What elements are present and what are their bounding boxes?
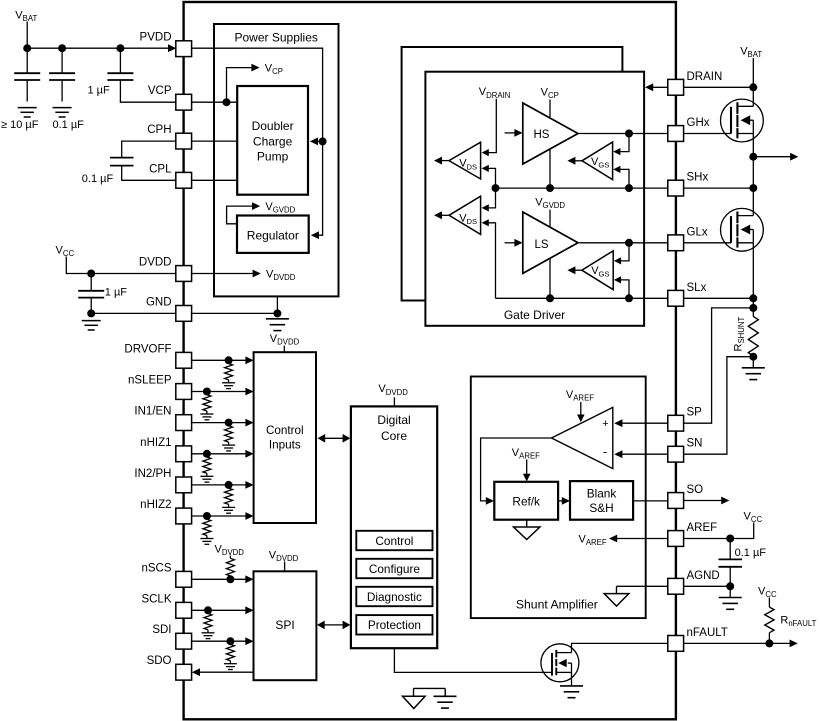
wire VCP stub into HS bbox=[549, 100, 551, 117]
svg-text:Gate Driver: Gate Driver bbox=[504, 308, 565, 322]
wire IN1/EN to Control Inputs bbox=[192, 422, 247, 424]
svg-text:GHx: GHx bbox=[687, 117, 710, 129]
junction IN2/PH pulldown bbox=[225, 481, 233, 489]
svg-text:AGND: AGND bbox=[687, 570, 720, 582]
pin AREF bbox=[668, 531, 684, 547]
wire DRAIN arrow into gate driver bbox=[651, 86, 668, 88]
wire VDS LS output arrow bbox=[442, 214, 450, 216]
op-amp VDS comparator LS bbox=[449, 196, 481, 234]
svg-text:0.1 µF: 0.1 µF bbox=[53, 119, 85, 131]
svg-text:HS: HS bbox=[534, 129, 550, 141]
wire HS bottom to SHx bbox=[549, 149, 551, 188]
junction at C3 bbox=[116, 44, 124, 52]
transistor low-side MOSFET bbox=[721, 208, 764, 251]
wire SPI to Digital Core (bidirectional) bbox=[323, 624, 344, 626]
wire GND to C5 bbox=[91, 312, 176, 314]
analog ground triangle below Ref/k bbox=[514, 527, 540, 540]
svg-text:+: + bbox=[602, 418, 608, 430]
wire RSHUNT to ground bbox=[752, 357, 754, 368]
svg-text:IN1/EN: IN1/EN bbox=[134, 406, 171, 418]
junction at C5 top bbox=[87, 270, 95, 278]
wire VCP to VCP label bbox=[227, 68, 252, 103]
svg-text:Control: Control bbox=[375, 534, 413, 548]
svg-text:nSCS: nSCS bbox=[141, 562, 171, 574]
pin GLx bbox=[668, 235, 684, 251]
wire VDS LS lower input from SLx bbox=[488, 223, 496, 298]
svg-text:Inputs: Inputs bbox=[269, 439, 301, 452]
wire SN to op-amp minus bbox=[621, 453, 668, 455]
svg-text:nFAULT: nFAULT bbox=[687, 627, 728, 639]
pin VCP bbox=[176, 94, 192, 110]
wire LS bottom to SLx bbox=[549, 259, 551, 299]
junction phase node bbox=[749, 153, 757, 161]
wire VAREF into op-amp bbox=[580, 402, 582, 415]
pin SLx bbox=[668, 290, 684, 306]
block Blank S&H bbox=[570, 481, 633, 520]
svg-text:CPL: CPL bbox=[149, 163, 172, 175]
svg-text:Ref/k: Ref/k bbox=[512, 495, 540, 509]
pin AGND bbox=[668, 578, 684, 594]
junction HS-SHx bbox=[546, 184, 554, 192]
wire high side source to phase node bbox=[752, 134, 754, 157]
transistor high-side MOSFET bbox=[721, 99, 764, 142]
junction DRVOFF pulldown bbox=[225, 356, 233, 364]
svg-text:CPH: CPH bbox=[147, 124, 171, 136]
resistor pulldown nHIZ1 bbox=[203, 457, 211, 473]
svg-text:S&H: S&H bbox=[589, 501, 613, 515]
op-amp VDS comparator HS bbox=[449, 142, 481, 179]
svg-text:SDI: SDI bbox=[152, 624, 171, 636]
wire IN2/PH to Control Inputs bbox=[192, 484, 247, 486]
block Regulator bbox=[237, 216, 309, 253]
wire DRVOFF to Control Inputs bbox=[192, 359, 247, 361]
junction AGND bbox=[726, 582, 734, 590]
svg-text:AREF: AREF bbox=[687, 522, 718, 534]
capacitor C2 plates bbox=[49, 72, 75, 74]
wire VDRAIN to VDS comparator bbox=[488, 99, 496, 153]
block SPI bbox=[254, 571, 317, 680]
junction nSLEEP pulldown bbox=[203, 388, 211, 396]
block Control Inputs bbox=[254, 352, 316, 523]
wire ground tie left stub bbox=[413, 688, 415, 696]
svg-text:Digital: Digital bbox=[377, 413, 410, 427]
wire AGND to ground triangle bbox=[617, 585, 668, 587]
wire regulator output to VGVDD label bbox=[227, 206, 252, 224]
digital ground symbol bbox=[434, 695, 457, 697]
junction nHIZ2 pulldown bbox=[203, 512, 211, 520]
svg-text:DVDD: DVDD bbox=[139, 257, 172, 269]
wire VDVDD stub Digital Core bbox=[393, 397, 395, 406]
svg-text:SP: SP bbox=[687, 407, 703, 419]
ground below C2 bbox=[53, 107, 72, 109]
block Ref/k bbox=[494, 482, 558, 520]
wire power supplies block to ground bbox=[276, 296, 278, 313]
resistor pulldown DRVOFF bbox=[225, 364, 233, 380]
junction VDS taps SHx bbox=[492, 184, 500, 192]
pin SN bbox=[668, 446, 684, 462]
wire VGS HS lower input from SHx bbox=[620, 169, 630, 188]
capacitor C2 bottom lead bbox=[61, 80, 63, 102]
block Digital Core bbox=[351, 406, 437, 648]
block Power Supplies bbox=[214, 24, 339, 296]
junction VGS taps SHx bbox=[625, 184, 633, 192]
block Protection bbox=[356, 615, 432, 634]
svg-text:Doubler: Doubler bbox=[252, 119, 294, 133]
wire nHIZ2 to Control Inputs bbox=[192, 515, 247, 517]
junction nSCS pullup bbox=[226, 575, 234, 583]
wire Digital Core to fault transistor gate bbox=[394, 648, 552, 672]
wire phase to low side drain bbox=[752, 157, 754, 216]
svg-text:-: - bbox=[603, 445, 607, 459]
svg-text:nHIZ1: nHIZ1 bbox=[140, 437, 171, 449]
resistor RnFAULT bbox=[765, 607, 774, 633]
junction SLx bbox=[749, 294, 757, 302]
wire VDVDD stub Control Inputs bbox=[283, 346, 285, 353]
ground SDI pulldown bbox=[224, 663, 237, 665]
capacitor C3 bottom lead to VCP bbox=[120, 80, 175, 102]
svg-text:PVDD: PVDD bbox=[140, 32, 172, 44]
pin DRVOFF bbox=[176, 352, 192, 368]
ground AGND bbox=[719, 597, 742, 599]
resistor pulldown SDI bbox=[226, 644, 234, 660]
svg-text:nSLEEP: nSLEEP bbox=[128, 375, 172, 387]
pin GHx bbox=[668, 126, 684, 142]
pin IN1/EN bbox=[176, 415, 192, 431]
svg-text:DRAIN: DRAIN bbox=[687, 71, 723, 83]
wire VDVDD stub SPI bbox=[284, 562, 286, 572]
wire SLx line bbox=[496, 297, 668, 299]
pin DRAIN bbox=[668, 79, 684, 95]
svg-text:≥ 10 µF: ≥ 10 µF bbox=[1, 119, 39, 131]
wire GND internal bbox=[192, 312, 278, 314]
junction IN1/EN pulldown bbox=[225, 419, 233, 427]
svg-text:DRVOFF: DRVOFF bbox=[124, 343, 171, 355]
wire VCC to AREF bbox=[684, 523, 754, 539]
wire SHx line bbox=[496, 187, 668, 189]
op-amp shunt amplifier U1 bbox=[552, 407, 613, 468]
resistor RSHUNT bbox=[748, 316, 758, 356]
pin nSCS bbox=[176, 571, 192, 587]
wire nFAULT output arrow bbox=[684, 642, 790, 644]
wire SP to op-amp plus bbox=[621, 422, 668, 424]
junction nHIZ1 pulldown bbox=[203, 450, 211, 458]
svg-text:Configure: Configure bbox=[369, 562, 421, 576]
capacitor C1 plates bbox=[14, 72, 40, 74]
wire SO output arrow bbox=[684, 500, 722, 502]
wire VCC to RnFAULT bbox=[768, 598, 770, 608]
junction DRAIN-VBAT bbox=[749, 83, 757, 91]
wire VGS LS upper input from GLx bbox=[620, 243, 629, 261]
svg-text:SLx: SLx bbox=[687, 282, 707, 294]
resistor pulldown nSLEEP bbox=[203, 395, 211, 411]
capacitor C6 0.1uF lead bbox=[729, 539, 731, 560]
resistor pulldown IN1/EN bbox=[225, 426, 233, 442]
svg-text:GLx: GLx bbox=[687, 226, 708, 238]
IC chip outline bbox=[184, 2, 676, 719]
junction VGS taps GLx bbox=[625, 239, 633, 247]
wire nSCS to SPI bbox=[192, 578, 246, 580]
capacitor C3 1uF lead bbox=[119, 48, 121, 73]
svg-text:Charge: Charge bbox=[253, 134, 293, 148]
wire VGVDD stub into LS bbox=[549, 210, 551, 227]
wire CPH to C4 bbox=[122, 141, 176, 158]
wire high side drain bus bbox=[752, 87, 754, 106]
pin SCLK bbox=[176, 602, 192, 618]
pin SHx bbox=[668, 180, 684, 196]
wire GHx line bbox=[579, 133, 668, 135]
wire ground tie right stub bbox=[444, 688, 446, 696]
wire PVDD internal to regulator bbox=[192, 48, 323, 235]
pin nHIZ1 bbox=[176, 446, 192, 462]
block Gate Driver shadow bbox=[402, 47, 623, 301]
junction at C5 bottom bbox=[87, 309, 95, 317]
svg-text:0.1 µF: 0.1 µF bbox=[82, 173, 114, 185]
wire AREF to VAREF label bbox=[616, 538, 668, 540]
pin SP bbox=[668, 415, 684, 431]
junction nFAULT bbox=[765, 639, 773, 647]
block Doubler Charge Pump bbox=[237, 86, 308, 195]
svg-text:VCP: VCP bbox=[148, 85, 172, 97]
svg-text:LS: LS bbox=[534, 239, 548, 251]
wire VDS LS upper input arrowhead bbox=[482, 204, 489, 211]
junction SHx bbox=[749, 184, 757, 192]
pin nSLEEP bbox=[176, 384, 192, 400]
pin IN2/PH bbox=[176, 477, 192, 493]
wire SPI to SDO bbox=[200, 671, 254, 673]
capacitor C6 plates bbox=[718, 558, 742, 560]
wire VGS LS output arrow bbox=[575, 269, 582, 271]
svg-text:SDO: SDO bbox=[147, 655, 172, 667]
wire op-amp output to Ref/k bbox=[481, 438, 552, 501]
transistor fault open-drain MOSFET bbox=[541, 644, 579, 682]
wire VAREF into Ref/k bbox=[526, 460, 528, 475]
wire VBAT bus to PVDD bbox=[27, 47, 176, 49]
wire SN sense bbox=[684, 357, 754, 455]
wire CPL internal bbox=[192, 179, 238, 181]
wire SLx to source bbox=[684, 297, 754, 299]
block Shunt Amplifier bbox=[471, 377, 646, 619]
resistor pullup nSCS bbox=[229, 556, 231, 559]
svg-text:Diagnostic: Diagnostic bbox=[367, 590, 422, 604]
junction RSHUNT top bbox=[749, 304, 757, 312]
wire VDS HS output arrow bbox=[442, 160, 450, 162]
junction RSHUNT bottom bbox=[749, 353, 757, 361]
wire VDS HS lower input from SHx bbox=[488, 168, 496, 208]
ground GND pin bbox=[266, 318, 289, 320]
wire VCP internal bbox=[192, 101, 238, 103]
wire AGND to cap bbox=[684, 585, 731, 587]
junction VGS taps GHx bbox=[625, 130, 633, 138]
junction VCP bbox=[223, 98, 231, 106]
ground DRVOFF pulldown bbox=[222, 382, 235, 384]
svg-text:1 µF: 1 µF bbox=[105, 286, 128, 298]
wire SHx to phase node bbox=[684, 187, 754, 189]
pin CPH bbox=[176, 133, 192, 149]
junction PVDD internal bbox=[319, 137, 327, 145]
capacitor C4 0.1uF plates bbox=[110, 157, 134, 159]
svg-text:nHIZ2: nHIZ2 bbox=[140, 499, 171, 511]
pin SDI bbox=[176, 633, 192, 649]
wire VGS LS lower input from SLx bbox=[620, 280, 629, 298]
wire SDI to SPI bbox=[192, 640, 246, 642]
wire SCLK to SPI bbox=[192, 609, 246, 611]
svg-text:Control: Control bbox=[266, 424, 304, 437]
wire LS input arrow bbox=[505, 242, 516, 244]
junction SCLK pulldown bbox=[204, 606, 212, 614]
wire Ref/k to Blank S&H bbox=[558, 500, 563, 502]
pin CPL bbox=[176, 172, 192, 188]
junction LS-SLx bbox=[546, 294, 554, 302]
svg-text:Shunt Amplifier: Shunt Amplifier bbox=[516, 597, 598, 611]
svg-text:Core: Core bbox=[381, 429, 407, 443]
capacitor C6 bottom lead bbox=[729, 567, 731, 587]
wire Control Inputs to Digital Core (bidirectional) bbox=[324, 437, 344, 439]
op-amp VGS comparator LS bbox=[582, 251, 613, 290]
pin SDO bbox=[176, 664, 192, 680]
capacitor C5 bottom lead bbox=[90, 298, 92, 314]
wire DRAIN to VBAT junction bbox=[684, 86, 754, 88]
capacitor C5 1uF lead bbox=[90, 274, 92, 291]
wire nSLEEP to Control Inputs bbox=[192, 391, 247, 393]
pin PVDD bbox=[176, 41, 192, 57]
wire VCC to DVDD bbox=[66, 257, 175, 274]
op-amp LS gate driver bbox=[523, 212, 578, 273]
wire to charge pump input bbox=[316, 140, 323, 142]
wire AGND ground stub bbox=[729, 586, 731, 597]
junction at C2 bbox=[58, 44, 66, 52]
wire nFAULT to fault transistor drain bbox=[572, 643, 668, 652]
wire VBAT stub bbox=[26, 22, 28, 49]
ground below C5 bbox=[82, 320, 101, 322]
capacitor C2 0.1uF lead bbox=[61, 48, 63, 73]
svg-text:Blank: Blank bbox=[587, 486, 617, 500]
capacitor C1 bottom lead bbox=[26, 80, 28, 102]
pin GND bbox=[176, 306, 192, 322]
wire SP sense bbox=[684, 308, 754, 423]
svg-text:Protection: Protection bbox=[368, 618, 421, 632]
resistor pulldown nHIZ2 bbox=[203, 519, 211, 535]
wire Ref/k to ground triangle bbox=[526, 520, 528, 527]
ground below C1 bbox=[18, 107, 37, 109]
capacitor C5 plates bbox=[78, 290, 104, 292]
wire C4 to CPL bbox=[122, 166, 176, 181]
wire GLx line bbox=[579, 242, 668, 244]
block Gate Driver bbox=[425, 72, 644, 326]
wire DVDD to VDVDD label bbox=[192, 273, 253, 275]
wire RnFAULT to nFAULT bbox=[768, 633, 770, 644]
ground RSHUNT bbox=[742, 367, 765, 369]
ground nHIZ2 pulldown bbox=[200, 538, 213, 540]
svg-text:GND: GND bbox=[146, 296, 172, 308]
analog ground triangle at AGND bbox=[604, 594, 629, 607]
ground IN1/EN pulldown bbox=[222, 444, 235, 446]
wire phase output arrow bbox=[753, 156, 790, 158]
ground fault transistor bbox=[560, 685, 583, 687]
pin SO bbox=[668, 493, 684, 509]
junction at C1 bbox=[23, 44, 31, 52]
capacitor C3 plates bbox=[107, 72, 133, 74]
wire VBAT to DRAIN bbox=[752, 58, 754, 87]
block Diagnostic bbox=[356, 587, 432, 606]
resistor pulldown IN2/PH bbox=[225, 488, 233, 504]
svg-text:SN: SN bbox=[687, 438, 703, 450]
wire nHIZ1 to Control Inputs bbox=[192, 453, 247, 455]
ground SCLK pulldown bbox=[202, 632, 215, 634]
ground IN2/PH pulldown bbox=[222, 506, 235, 508]
svg-text:0.1 µF: 0.1 µF bbox=[735, 547, 767, 559]
wire low side source bus bbox=[752, 243, 754, 317]
junction GND bbox=[273, 309, 281, 317]
junction AREF cap bbox=[726, 535, 734, 543]
block Configure bbox=[356, 559, 432, 578]
svg-text:1 µF: 1 µF bbox=[88, 84, 111, 96]
svg-text:IN2/PH: IN2/PH bbox=[134, 468, 171, 480]
pin nFAULT bbox=[668, 636, 684, 652]
wire VGS HS output arrow bbox=[575, 160, 582, 162]
analog ground triangle bbox=[403, 696, 426, 708]
svg-text:SPI: SPI bbox=[275, 618, 294, 632]
op-amp HS gate driver bbox=[523, 103, 578, 164]
junction VGS taps SLx bbox=[625, 294, 633, 302]
svg-text:Pump: Pump bbox=[257, 149, 289, 163]
capacitor C1 >=10uF lead bbox=[26, 48, 28, 73]
pin DVDD bbox=[176, 266, 192, 282]
svg-text:SO: SO bbox=[687, 484, 704, 496]
pin nHIZ2 bbox=[176, 508, 192, 524]
wire ground tie bar bbox=[414, 687, 446, 689]
svg-text:Regulator: Regulator bbox=[247, 228, 299, 242]
ground nSLEEP pulldown bbox=[200, 413, 213, 415]
op-amp VGS comparator HS bbox=[582, 142, 613, 180]
svg-text:SHx: SHx bbox=[687, 172, 709, 184]
block Control bbox=[356, 531, 432, 550]
wire Blank S&H to SO bbox=[633, 500, 668, 502]
svg-text:SCLK: SCLK bbox=[141, 593, 171, 605]
resistor pulldown SCLK bbox=[204, 614, 212, 630]
ground nHIZ1 pulldown bbox=[200, 475, 213, 477]
svg-text:Power Supplies: Power Supplies bbox=[235, 30, 318, 44]
junction SDI pulldown bbox=[226, 637, 234, 645]
wire VGS HS upper input from GHx bbox=[620, 134, 630, 152]
wire CPH internal bbox=[192, 140, 238, 142]
wire HS input arrow bbox=[505, 132, 516, 134]
